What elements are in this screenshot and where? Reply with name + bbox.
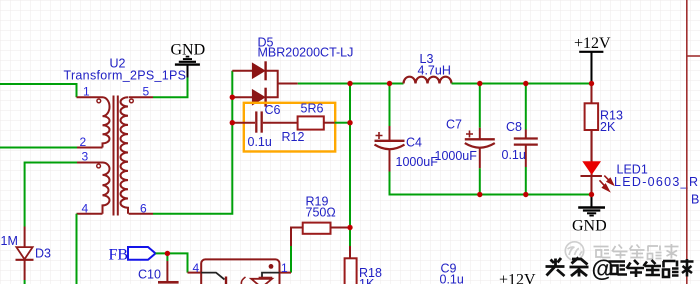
- capacitor C8: [514, 139, 538, 145]
- ground symbol bottom: [572, 195, 607, 235]
- diode D5 top anode wire: [232, 70, 252, 72]
- wire L3 to +12V node: [452, 83, 592, 85]
- svg-text:C8: C8: [506, 120, 522, 134]
- diode D5 bottom diode: [252, 88, 265, 107]
- wire D3 bottom: [24, 260, 26, 280]
- transformer U2 right winding: [120, 97, 128, 213]
- optocoupler U box: [201, 259, 279, 284]
- capacitor C8 stub: [525, 130, 527, 139]
- svg-text:Transform_2PS_1PS: Transform_2PS_1PS: [64, 69, 187, 83]
- transformer U2 left top winding: [103, 97, 110, 147]
- wire R12 to node: [335, 122, 350, 124]
- diode D5 bottom anode wire: [232, 96, 252, 98]
- resistor R13: [585, 103, 599, 130]
- wire D3 top stub: [24, 227, 26, 248]
- transformer U2 left bottom winding: [103, 163, 110, 214]
- wire R19 left down: [291, 228, 303, 247]
- resistor R19: [303, 223, 331, 234]
- wire net1 left to pin1: [0, 84, 77, 97]
- wire C4 to gnd rail: [390, 172, 592, 195]
- capacitor C7 wire bottom: [479, 149, 481, 169]
- svg-text:B: B: [691, 193, 699, 207]
- svg-text:FB: FB: [109, 247, 129, 264]
- resistor R18: [345, 258, 357, 284]
- capacitor C7 stub: [479, 128, 481, 139]
- svg-text:C6: C6: [265, 103, 281, 117]
- wire main rail D5 to L3: [298, 83, 404, 85]
- svg-text:MBR20200CT-LJ: MBR20200CT-LJ: [258, 46, 354, 60]
- optocoupler zener top wire: [262, 273, 280, 278]
- svg-text:+12V: +12V: [574, 35, 611, 52]
- svg-text:4.7uH: 4.7uH: [418, 64, 451, 78]
- wire opto pin4 stub: [188, 272, 202, 274]
- capacitor C4: [375, 132, 405, 149]
- capacitor C10 plate: [158, 281, 179, 284]
- transformer polarity dot pin1: [97, 99, 101, 103]
- optocoupler transistor bar: [225, 277, 227, 284]
- transformer polarity dot pin5: [130, 99, 134, 103]
- port FB: [128, 247, 156, 260]
- svg-text:D3: D3: [35, 247, 51, 261]
- wire net2 to pin2: [0, 147, 77, 149]
- svg-text:0.1u: 0.1u: [502, 148, 526, 162]
- LED1: [581, 130, 614, 191]
- wire LED1 to gnd: [591, 176, 593, 195]
- wire C6 to R12: [263, 122, 298, 124]
- wire pin6 to D5 anodes: [153, 71, 232, 214]
- wire D3 bottom green: [24, 280, 26, 284]
- svg-text:4: 4: [193, 261, 200, 275]
- svg-text:1: 1: [281, 261, 288, 275]
- wire pin3 stub: [77, 162, 103, 164]
- svg-text:5: 5: [143, 85, 150, 99]
- inductor L3: [404, 77, 452, 84]
- resistor R12: [298, 116, 324, 129]
- watermark gray text 硬件笔记本: [594, 244, 679, 259]
- capacitor C7: [465, 131, 495, 148]
- wire R13 to LED1: [591, 130, 593, 161]
- svg-text:0.1u: 0.1u: [248, 135, 272, 149]
- watermark black text 硬件笔记本: [609, 259, 694, 277]
- capacitor C6 wire left: [232, 122, 255, 124]
- svg-text:3: 3: [82, 150, 89, 164]
- wire opto pin1 stub: [280, 272, 292, 274]
- capacitor C4 wire top: [389, 84, 391, 127]
- diode D5 top diode: [252, 61, 265, 80]
- svg-text:0.1u: 0.1u: [440, 273, 464, 284]
- optocoupler transistor collector line: [201, 273, 224, 280]
- svg-text:2K: 2K: [600, 120, 616, 134]
- diode D5 cathode joining wires: [266, 71, 298, 97]
- wire node to R19 vertical: [349, 84, 351, 247]
- wire pin2 stub: [77, 147, 103, 149]
- capacitor C4 stub: [389, 126, 391, 141]
- svg-text:C10: C10: [138, 268, 161, 282]
- diode D3: [16, 247, 34, 260]
- optocoupler zener triangle: [251, 279, 272, 284]
- wire R12 right: [324, 122, 335, 124]
- svg-text:2: 2: [80, 135, 87, 149]
- optocoupler pin1 indicator dot: [269, 264, 274, 269]
- svg-text:1000uF: 1000uF: [396, 155, 439, 169]
- optocoupler zener bar: [259, 277, 273, 279]
- wire pin5 stub: [129, 96, 153, 98]
- svg-text:4: 4: [82, 202, 89, 216]
- wire pin1 stub: [77, 96, 103, 98]
- capacitor C8 wire top: [525, 84, 527, 130]
- capacitor C7 wire top: [479, 84, 481, 128]
- wire +12V node to R13: [591, 84, 593, 104]
- wire pin3 net down to D3: [25, 163, 77, 227]
- svg-text:1K: 1K: [359, 277, 375, 284]
- wire R19 right to node: [331, 227, 351, 229]
- svg-text:5R6: 5R6: [301, 102, 324, 116]
- svg-text:R12: R12: [282, 130, 305, 144]
- wire pin6 stub: [129, 213, 153, 215]
- power port +12V top: [574, 35, 611, 84]
- wire pin4 net down: [76, 214, 78, 284]
- watermark logo circle: [565, 242, 583, 260]
- capacitor C4 wire bottom: [389, 150, 391, 172]
- wire C8 to gnd rail: [525, 167, 527, 195]
- watermark black text 头条: [546, 258, 589, 277]
- svg-text:C4: C4: [406, 136, 422, 150]
- svg-text:750Ω: 750Ω: [306, 206, 336, 220]
- svg-text:GND: GND: [572, 218, 607, 235]
- wire down to opto pin1: [290, 246, 292, 273]
- svg-text:C7: C7: [446, 118, 462, 132]
- svg-text:+12V: +12V: [499, 272, 536, 284]
- svg-text:6: 6: [140, 202, 147, 216]
- wire FB to opto pin4: [156, 253, 188, 272]
- capacitor C10 wire: [166, 253, 168, 261]
- transformer polarity dot pin3: [97, 164, 101, 168]
- svg-text:1: 1: [83, 85, 90, 99]
- orange highlight box: [244, 103, 335, 152]
- sheet border: [687, 0, 700, 284]
- capacitor C10 stub: [166, 261, 168, 281]
- wire C7 to gnd rail: [479, 168, 481, 194]
- svg-text:1M: 1M: [1, 234, 18, 248]
- wire pin5 to GND: [153, 77, 188, 97]
- transformer U2 core: [114, 96, 118, 216]
- wire vertical red to R18: [349, 246, 351, 258]
- optocoupler led arc: [241, 277, 245, 284]
- svg-text:1000uF: 1000uF: [435, 149, 478, 163]
- capacitor C6: [256, 111, 261, 132]
- wire pin4 stub: [77, 213, 103, 215]
- ground symbol top (GND): [171, 42, 206, 78]
- capacitor C8 wire bottom: [525, 146, 527, 168]
